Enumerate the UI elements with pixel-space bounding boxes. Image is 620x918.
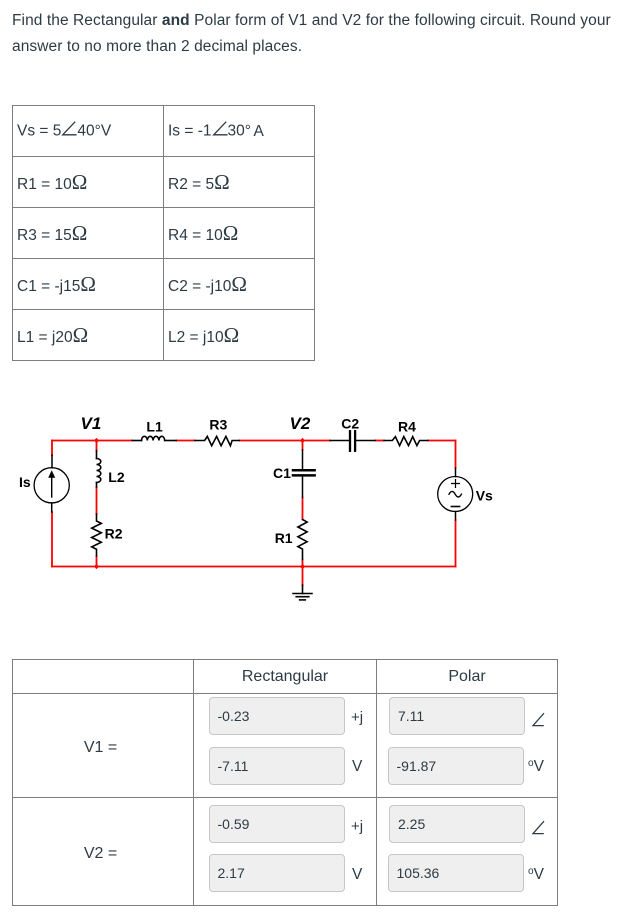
- wire bottom rail: [52, 566, 456, 568]
- inductor L2: [97, 451, 101, 487]
- node bottom-left junction dot: [94, 564, 99, 569]
- svg-text:R4: R4: [398, 419, 416, 435]
- inductor L1: [132, 436, 176, 440]
- capacitor C2: [330, 431, 375, 451]
- svg-text:Vs: Vs: [476, 487, 493, 503]
- wire V1 branch: R2 to bottom rail: [96, 556, 98, 567]
- wire left: Is to bottom corner: [51, 512, 53, 567]
- resistor R3: [195, 436, 239, 445]
- node bottom-right junction dot: [300, 564, 305, 569]
- ground: [293, 585, 312, 600]
- resistor R1: [298, 520, 307, 560]
- wire right: Vs to bottom corner: [455, 520, 457, 567]
- svg-text:V2: V2: [290, 414, 311, 433]
- svg-text:R2: R2: [105, 526, 123, 542]
- svg-text:R1: R1: [275, 530, 293, 546]
- wire V1 branch: L2 to R2: [96, 487, 98, 514]
- svg-text:V1: V1: [81, 414, 102, 433]
- wire: bottom rail to ground: [302, 567, 304, 586]
- svg-text:C1: C1: [273, 465, 291, 481]
- node V1 junction dot: [94, 438, 99, 443]
- svg-text:R3: R3: [209, 417, 227, 433]
- wire top-left: V1 node to left corner and down to Is: [52, 441, 132, 456]
- wire top: L1 to R3: [176, 440, 195, 442]
- svg-text:C2: C2: [341, 415, 359, 431]
- wire top: C2 to R4: [375, 440, 384, 442]
- wire V2 branch: C1 to R1: [302, 498, 304, 520]
- wire top-right: R4 to right corner: [428, 440, 456, 442]
- Vs minus sign: [451, 506, 459, 508]
- node V2 junction dot: [300, 438, 305, 443]
- wire right: corner down to Vs: [455, 441, 457, 469]
- wire top: R3 to C2 (through V2 node): [239, 440, 330, 442]
- Vs plus sign: [452, 480, 460, 488]
- wire V2 branch: node to C1: [302, 441, 304, 451]
- wire V2 branch: R1 to bottom rail: [302, 560, 304, 567]
- svg-text:L2: L2: [108, 469, 125, 485]
- Vs sine wave: [449, 491, 461, 497]
- svg-text:Is: Is: [19, 474, 31, 490]
- current source Is: [34, 455, 69, 512]
- svg-text:L1: L1: [146, 418, 163, 434]
- voltage source Vs: [438, 468, 473, 520]
- wire V1 branch: node to L2: [96, 441, 98, 451]
- capacitor C1: [293, 450, 315, 498]
- resistor R2: [92, 514, 102, 556]
- resistor R4: [384, 437, 428, 446]
